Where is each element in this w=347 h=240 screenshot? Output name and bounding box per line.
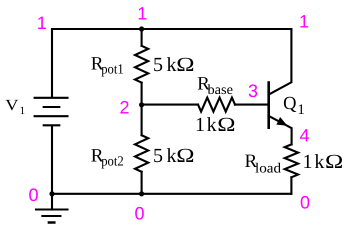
svg-text:k: k xyxy=(167,54,177,76)
wire middle vertical Rpot2 to node0 xyxy=(141,172,143,194)
wire Rbase to transistor base xyxy=(235,104,269,106)
wire Rload to bottom rail xyxy=(290,177,292,194)
wire top rail node 1 xyxy=(52,28,291,30)
svg-text:V: V xyxy=(5,97,19,114)
svg-text:1: 1 xyxy=(195,114,205,136)
svg-text:1: 1 xyxy=(298,102,305,118)
svg-text:load: load xyxy=(255,161,281,176)
wire bottom rail node 0 xyxy=(52,193,291,195)
svg-text:k: k xyxy=(314,151,324,173)
svg-text:Ω: Ω xyxy=(176,54,194,76)
transistor Q1 emitter xyxy=(269,116,292,144)
battery V1 xyxy=(35,98,68,126)
resistor R_pot2 xyxy=(135,135,148,172)
wire base rail node2 to Rbase xyxy=(142,104,198,106)
svg-text:Ω: Ω xyxy=(325,151,343,173)
svg-text:pot2: pot2 xyxy=(101,155,124,170)
svg-text:3: 3 xyxy=(248,81,258,101)
svg-text:1: 1 xyxy=(299,12,309,32)
svg-text:0: 0 xyxy=(28,185,38,205)
svg-text:pot1: pot1 xyxy=(101,63,124,78)
svg-text:1: 1 xyxy=(303,151,313,173)
wire left vertical battery bottom xyxy=(51,126,53,194)
svg-text:Ω: Ω xyxy=(176,145,194,167)
junction dot node 0 middle xyxy=(139,191,144,196)
svg-text:5: 5 xyxy=(153,54,163,76)
svg-text:base: base xyxy=(208,83,234,98)
svg-text:0: 0 xyxy=(134,203,144,223)
transistor Q1 emitter arrow xyxy=(276,117,287,126)
wire middle vertical Rpot1 to node2 to Rpot2 xyxy=(141,83,143,136)
svg-text:1: 1 xyxy=(37,13,47,33)
wire left vertical battery top xyxy=(51,29,53,97)
svg-text:1: 1 xyxy=(20,105,26,117)
svg-text:k: k xyxy=(207,114,217,136)
svg-text:Q: Q xyxy=(283,94,297,114)
resistor R_pot1 xyxy=(135,46,148,83)
transistor Q1 collector xyxy=(269,29,292,95)
svg-text:0: 0 xyxy=(300,193,310,213)
svg-text:4: 4 xyxy=(299,125,309,145)
junction dot node 2 xyxy=(139,102,144,107)
svg-text:2: 2 xyxy=(119,97,129,117)
transistor Q1 base bar xyxy=(267,83,270,128)
ground xyxy=(36,194,68,223)
svg-text:k: k xyxy=(167,145,177,167)
svg-text:Ω: Ω xyxy=(217,114,235,136)
svg-text:5: 5 xyxy=(153,145,163,167)
wire middle vertical node1 to Rpot1 xyxy=(141,29,143,46)
svg-text:1: 1 xyxy=(137,3,147,23)
junction dot node 1 top middle xyxy=(139,26,144,31)
junction dot node 0 ground tap xyxy=(49,191,54,196)
resistor R_load xyxy=(285,144,298,177)
resistor R_base xyxy=(198,98,235,112)
